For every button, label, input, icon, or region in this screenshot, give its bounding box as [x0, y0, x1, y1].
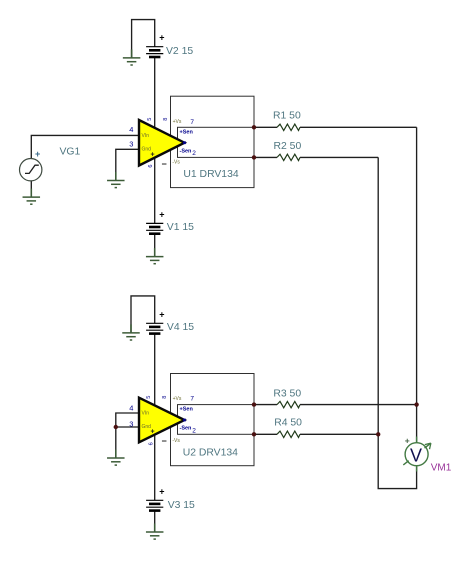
svg-text:+: +: [35, 149, 40, 159]
svg-text:-Vs: -Vs: [172, 438, 180, 444]
svg-text:+: +: [159, 33, 164, 43]
svg-text:VIn: VIn: [142, 411, 150, 417]
svg-text:7: 7: [190, 119, 194, 126]
svg-text:U1 DRV134: U1 DRV134: [183, 169, 238, 180]
svg-text:+Vs: +Vs: [173, 119, 182, 125]
svg-text:5: 5: [146, 396, 152, 399]
svg-text:R2 50: R2 50: [274, 141, 302, 152]
svg-text:R4 50: R4 50: [274, 418, 302, 429]
svg-text:2: 2: [192, 150, 196, 157]
svg-text:5: 5: [147, 118, 153, 121]
svg-text:2: 2: [192, 427, 196, 434]
svg-text:8: 8: [163, 118, 169, 121]
svg-text:6: 6: [148, 165, 154, 168]
svg-text:+Sen: +Sen: [180, 407, 194, 413]
svg-text:7: 7: [190, 396, 194, 403]
svg-text:+: +: [159, 486, 164, 496]
svg-text:+: +: [159, 209, 164, 219]
svg-text:-Sen: -Sen: [180, 426, 193, 432]
svg-text:+Sen: +Sen: [180, 130, 194, 136]
svg-text:R1 50: R1 50: [273, 111, 301, 122]
svg-text:+: +: [405, 435, 410, 445]
svg-text:R3 50: R3 50: [273, 389, 301, 400]
svg-text:+: +: [159, 309, 164, 319]
svg-text:6: 6: [148, 442, 154, 445]
svg-text:V1 15: V1 15: [167, 222, 194, 233]
svg-text:VIn: VIn: [142, 133, 150, 139]
svg-text:V: V: [410, 446, 422, 466]
svg-text:-Sen: -Sen: [180, 149, 193, 155]
svg-text:V2 15: V2 15: [166, 46, 193, 57]
svg-text:-Vs: -Vs: [172, 160, 180, 166]
svg-text:VM1: VM1: [431, 462, 452, 473]
svg-text:U2 DRV134: U2 DRV134: [183, 448, 238, 459]
svg-text:+: +: [151, 152, 155, 159]
svg-text:−: −: [162, 159, 167, 169]
svg-text:V3 15: V3 15: [168, 500, 195, 511]
svg-text:3: 3: [129, 420, 133, 429]
svg-text:+: +: [151, 429, 155, 436]
svg-text:4: 4: [129, 404, 133, 413]
svg-text:+Vs: +Vs: [173, 396, 182, 402]
svg-text:VG1: VG1: [60, 147, 81, 158]
svg-text:4: 4: [129, 125, 133, 134]
svg-text:3: 3: [129, 140, 133, 149]
svg-text:−: −: [162, 436, 167, 446]
svg-text:V4 15: V4 15: [167, 322, 194, 333]
svg-text:8: 8: [162, 396, 168, 399]
